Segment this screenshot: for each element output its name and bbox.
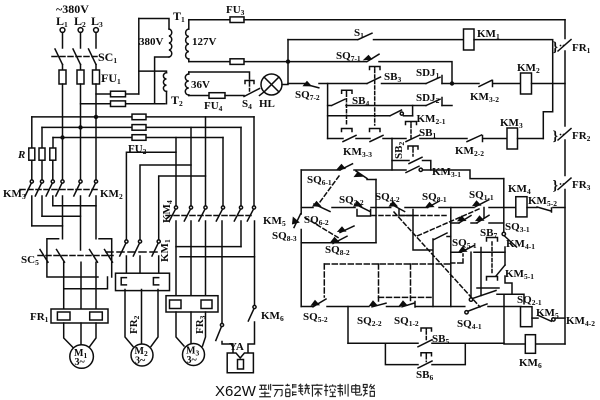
caption X62W type universal milling machine control circuit [215, 383, 257, 400]
node L1 on bus3 [60, 135, 64, 139]
limit switch SQ2-2 [357, 315, 382, 328]
caption glyph 制 [337, 384, 348, 397]
wire R outputs to KM3 poles [32, 160, 53, 179]
limit switch SQ4-1 [457, 318, 482, 331]
row SQ3-1 [451, 222, 504, 224]
contactor KM1 label [159, 239, 172, 262]
svg-text:X62W: X62W [215, 383, 257, 400]
fuse on transformer return [111, 101, 126, 107]
wire bridge KM3 to KM2 outputs [32, 206, 96, 226]
wire KM1 coil to right drop [474, 40, 553, 139]
wire 127V top to FU3 [189, 19, 230, 21]
wire SQ7-2 row [288, 83, 305, 85]
dashed side drops of linkage rectangle [379, 264, 411, 301]
wire right rail bottom [564, 190, 566, 345]
svg-text:}: } [553, 40, 559, 55]
wire bus3 branch to pole1 [175, 138, 177, 206]
limit switch SQ6-1 [307, 174, 332, 187]
row SQ8-2 [301, 242, 376, 244]
wire branch row to KM1 pole3 [159, 176, 206, 240]
motor M3 [183, 344, 205, 366]
thermal element FR2 [116, 273, 170, 290]
coil KM5 [521, 307, 533, 327]
wire right rail top [564, 20, 566, 39]
relay contact SDJ1 [416, 67, 440, 80]
limit switch SQ1-1 [469, 189, 494, 202]
wire 36V top loop [189, 72, 250, 79]
button SB1 [419, 127, 436, 140]
button SB6 [416, 369, 433, 382]
switch S1 [354, 27, 364, 40]
wire KM2 coil to right rail [532, 83, 566, 85]
dashed box row y264 [324, 263, 450, 265]
limit switch SQ4-2 [375, 191, 400, 204]
fuse FU4 [209, 93, 225, 99]
wire box left edge lower [300, 230, 302, 307]
wire FU4 to S4 [225, 95, 244, 97]
node junction on left control bus [286, 59, 290, 63]
wire KM2 outputs down [63, 196, 97, 250]
limit switch SQ8-2 [325, 244, 350, 257]
bus line 2 [42, 126, 241, 128]
wire KM3 coil right [518, 138, 544, 140]
wire bus3 to R1 [31, 117, 33, 148]
wire branch bus to SB4 row [327, 84, 329, 139]
node L2 on bus2 [78, 125, 82, 129]
dashed link KM3/KM2 row [20, 189, 99, 191]
button SB5 [432, 333, 449, 346]
thermal element FR1 [51, 309, 108, 323]
coil KM4 [516, 197, 527, 217]
svg-text:R: R [17, 149, 25, 161]
coil KM3 [507, 128, 518, 149]
wire right rail mid1 [564, 51, 566, 126]
dashed link SQ6-1 to SQ6-2 [317, 176, 339, 206]
resistor R (three elements) [29, 148, 56, 160]
wire 36V bottom to FU4 [189, 95, 209, 97]
dashed corner at SQ5-1 [451, 254, 463, 263]
terminal L3 [91, 14, 103, 29]
limit switch SQ8-3 blade [338, 226, 354, 233]
contactor KM4 label [161, 200, 174, 223]
wire SQ5-1 blade drop [480, 248, 482, 296]
button SB4 [352, 95, 369, 108]
limit switch SQ7-1 [336, 50, 361, 63]
contact KM3-2 [470, 91, 499, 104]
svg-text:380V: 380V [139, 36, 164, 48]
wire top control bus to right rail [244, 19, 565, 21]
svg-text:HL: HL [259, 98, 275, 110]
row SB5 [348, 342, 504, 344]
transformer T2 primary [139, 71, 167, 104]
svg-text:3~: 3~ [135, 356, 146, 367]
thermal element FR3 [166, 296, 218, 312]
wire FR3 to M3 [176, 312, 206, 346]
transformer T1 label [173, 9, 185, 24]
transformer T2 label [171, 93, 183, 108]
limit switch SQ3-1 [458, 215, 489, 223]
wire bus2 turn down to pole5 [240, 127, 242, 205]
limit switch SQ7-2 [295, 89, 320, 102]
button SB7 [480, 227, 497, 240]
wire SC5 outputs [64, 262, 96, 309]
caption glyph 路 [363, 384, 374, 396]
contactor KM4/KM5 contact row [166, 206, 256, 221]
caption glyph 能 [285, 384, 296, 397]
limit switch SQ6-2 on left edge [304, 214, 329, 227]
thermal contact FR2 [572, 130, 591, 143]
wire drop to SQ8-2 row [375, 180, 377, 243]
contact on YA left wire [216, 323, 233, 353]
switch S4 [244, 81, 260, 97]
switch SC5 box [47, 239, 112, 277]
limit switch SQ5-2 [303, 311, 328, 324]
svg-text:127V: 127V [192, 36, 217, 48]
transformer T2 secondary 36V [185, 72, 189, 96]
dashed row y215.5 [372, 215, 449, 217]
wire right rail mid2 [564, 140, 566, 176]
contact KM5-1 [505, 268, 534, 281]
wire SC1 to FU1 [63, 65, 97, 71]
coil KM2 [521, 73, 532, 94]
wire branch from main row down [450, 208, 452, 307]
wire FR2 to M2 [125, 290, 158, 347]
wire KM6 coil row [504, 294, 565, 344]
label SQ8-3 [272, 230, 297, 243]
relay contact SDJ2 [416, 92, 440, 105]
transformer T1 primary 380V [139, 19, 172, 104]
wire redistribution rows below [176, 247, 255, 257]
wire bus drops to KM2 poles [63, 117, 97, 180]
motor M2 [131, 344, 153, 366]
caption glyph 电 [352, 384, 362, 395]
wire bus2 to R2 [41, 127, 43, 148]
node SDJ junction [450, 81, 454, 85]
caption glyph 万 [272, 385, 283, 396]
dashed link SQ4-2 to SQ4-1 [394, 212, 480, 307]
node L3 on bus1 [94, 115, 98, 119]
svg-text:}: } [553, 179, 559, 194]
coil KM1 [464, 29, 475, 50]
wire stub on SQ3-1 row [483, 208, 485, 218]
caption glyph 型 [259, 384, 271, 397]
wire bus1 to R3 [52, 138, 54, 149]
wire L2 fuse to bus2 [80, 84, 82, 127]
wire T1 feed from L3 [96, 93, 139, 95]
contact bar under SQ4-2 [399, 210, 413, 216]
coil KM6 [525, 335, 535, 354]
fuse on 127V bottom [230, 59, 244, 65]
switch SC5 blades [38, 250, 113, 263]
wire bus3 turn down to pole4 [222, 138, 224, 206]
wire FR1 to M1 [64, 323, 96, 348]
wire SQ4-2 lower loop [413, 216, 433, 307]
fuse on T1 feed [111, 91, 126, 97]
dashed link SQ8-1 drop [416, 209, 479, 237]
caption glyph 控 [324, 384, 336, 397]
wire T1 primary left riser [138, 19, 140, 95]
wire bus1 turn down to pole6 [253, 117, 255, 206]
contact SQ6-1 lower with stub row [356, 171, 367, 179]
contact KM6 [248, 305, 256, 353]
svg-text:}: } [553, 129, 559, 144]
wire L3 drop [95, 33, 97, 49]
node T to SB5 loop [347, 307, 349, 344]
caption glyph 床 [311, 384, 322, 397]
solenoid YA [229, 341, 244, 353]
wire bus2 branch to pole2 [190, 127, 192, 205]
svg-text:3~: 3~ [187, 355, 198, 366]
contact KM2-1 [417, 113, 446, 126]
wire KM4/KM5 outputs down [176, 221, 255, 323]
bus line 1 [32, 116, 254, 118]
limit switch SQ3-2 [339, 194, 364, 207]
motor M1 [70, 345, 94, 369]
row y306.5 [301, 306, 521, 308]
row SQ5-1 [452, 237, 477, 250]
terminal L1 [56, 14, 68, 29]
wire SB3 row [319, 83, 367, 85]
limit switch SQ6-2b blade on row [313, 202, 330, 212]
wire transformer return line [81, 103, 166, 105]
contact on SQ4-2 loop [434, 233, 451, 240]
contact KM3-3 (two poles with caps) [343, 146, 372, 159]
limit switch SQ1-2 [394, 315, 419, 328]
switch SC1 [52, 49, 99, 65]
loop SB6 [385, 343, 465, 364]
caption glyph 铣 [298, 384, 310, 395]
button SB2 bypass branch [393, 142, 406, 159]
wire lower bridge [64, 277, 108, 289]
wire L1 drop [62, 33, 64, 49]
contactor KM3 main contacts [25, 180, 54, 196]
wire drop to SQ2-1 [470, 252, 472, 298]
lamp HL [260, 74, 289, 96]
dashed drop to SQ5-2 [323, 264, 325, 297]
wire left control bus [287, 40, 289, 84]
wire L1 fuse to bus3 [62, 84, 64, 138]
wire branch row to KM1 pole1 [126, 152, 176, 240]
contact SQ2-1 with cap [517, 294, 542, 307]
dashed row y297 [379, 296, 432, 298]
contactor KM1 main contacts [106, 240, 160, 256]
wire L3 fuse to bus1 [95, 84, 97, 117]
label ~380V supply [56, 2, 89, 16]
transformer T1 secondary 127V [186, 20, 189, 62]
terminal L2 [74, 14, 86, 29]
contactor KM2 main contacts [56, 180, 98, 196]
contact KM4-1 [506, 238, 535, 251]
wire KM1 outputs to FR2 [126, 256, 158, 273]
contact KM2-2 [455, 145, 484, 158]
fuse FU2 (three cartridges) [132, 114, 146, 140]
wire branch row to KM1 pole2 [140, 165, 191, 240]
fuse FU3 [230, 17, 244, 23]
fuse FU1 (three cartridges) [59, 70, 100, 84]
wire bus1 branch to pole3 [205, 117, 207, 206]
wire L2 drop [80, 33, 82, 49]
dashed link SQ6-2 to SQ8-2 [305, 218, 338, 238]
main row y207.5 [301, 207, 516, 209]
contact KM5-2 [528, 195, 557, 208]
svg-text:YA: YA [229, 341, 244, 353]
wire box left edge upper [300, 170, 302, 214]
svg-text:3~: 3~ [75, 357, 86, 368]
contact KM3-1 row [432, 166, 461, 179]
contact KM4-2 [566, 315, 595, 328]
limit switch SQ8-1 [422, 191, 447, 204]
bus line 3 [53, 137, 223, 139]
wire S1 row left [288, 39, 357, 41]
wire drop from KM3-1 row [503, 179, 505, 232]
wire KM3 outputs down [32, 196, 53, 226]
wire 127V bottom row [189, 61, 366, 63]
button SB3 [384, 71, 401, 84]
thermal contact FR3 [572, 179, 591, 192]
svg-text:36V: 36V [191, 79, 210, 91]
thermal contact FR1 [572, 42, 591, 55]
